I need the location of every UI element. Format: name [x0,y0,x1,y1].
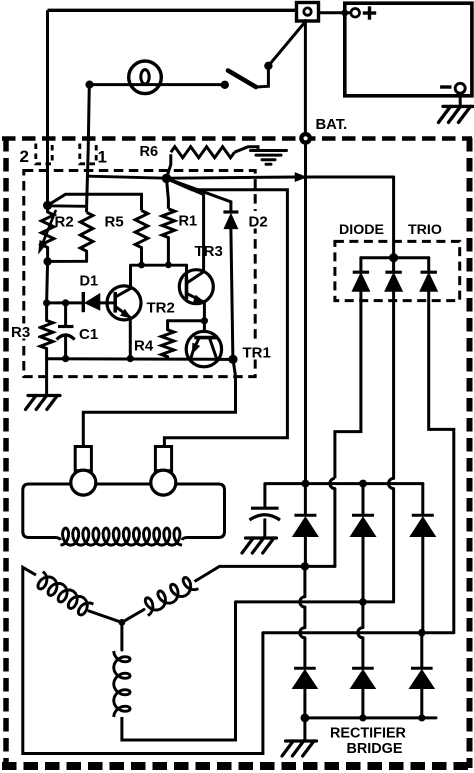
svg-text:BRIDGE: BRIDGE [347,741,403,757]
svg-text:R5: R5 [105,214,124,231]
svg-text:BAT.: BAT. [316,117,348,133]
svg-text:R6: R6 [140,144,159,160]
svg-text:RECTIFIER: RECTIFIER [330,726,407,742]
svg-text:D1: D1 [80,274,99,290]
svg-text:TR2: TR2 [147,300,175,317]
svg-text:TRIO: TRIO [408,222,442,238]
svg-text:TR3: TR3 [195,243,223,260]
svg-text:TR1: TR1 [243,345,271,362]
svg-text:C1: C1 [79,326,98,343]
svg-text:2: 2 [20,147,29,166]
svg-text:1: 1 [98,148,107,167]
svg-text:R2: R2 [55,214,74,231]
svg-text:R4: R4 [134,338,154,355]
svg-text:R1: R1 [179,214,198,230]
svg-text:R3: R3 [11,324,30,341]
svg-text:D2: D2 [249,214,268,231]
svg-text:DIODE: DIODE [339,222,384,238]
